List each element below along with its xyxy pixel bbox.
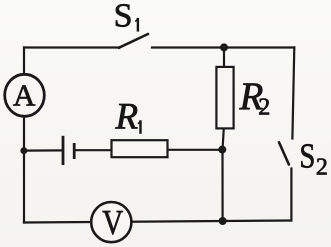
svg-text:S: S <box>299 137 315 176</box>
svg-text:R: R <box>115 97 139 138</box>
svg-text:A: A <box>13 78 36 113</box>
svg-text:2: 2 <box>316 154 328 180</box>
wire: bottom horizontal <box>24 221 291 223</box>
switch S2 blade <box>279 142 289 164</box>
battery long plate <box>62 136 65 165</box>
wire: right upper vertical (top corner to S2) <box>292 48 294 139</box>
wire: left vertical <box>23 48 25 223</box>
label R1 subscript (digit 1 drawn) <box>138 120 141 134</box>
svg-text:S: S <box>114 0 133 35</box>
label S1 subscript (digit 1 drawn) <box>135 18 138 32</box>
svg-text:2: 2 <box>258 95 270 121</box>
ammeter A1 circle <box>5 74 45 116</box>
svg-text:V: V <box>102 203 123 242</box>
battery short plate <box>73 143 76 159</box>
wire: node A down to R2 top <box>223 48 225 69</box>
node dot A (top junction) <box>220 43 228 51</box>
resistor R2 box <box>216 67 233 128</box>
voltmeter V1 circle <box>91 202 131 242</box>
wire: R2 bottom to middle node <box>223 128 224 150</box>
wire: middle branch left (node to battery) <box>24 149 62 151</box>
wire: battery to R1 <box>75 149 112 151</box>
wire: top-right segment from S1 to top-right corner <box>152 46 294 48</box>
resistor R1 box <box>112 140 168 157</box>
node dot middle junction <box>218 146 226 154</box>
wire: top-left segment to switch S1 <box>24 46 119 48</box>
node dot bottom junction <box>219 217 227 225</box>
switch S1 blade <box>119 34 148 48</box>
wire: R1 to middle node <box>167 149 223 151</box>
wire: right lower vertical (S2 to bottom-right corner) <box>290 169 292 221</box>
wire: middle node down to bottom node <box>221 150 223 221</box>
node dot left junction <box>20 147 27 154</box>
